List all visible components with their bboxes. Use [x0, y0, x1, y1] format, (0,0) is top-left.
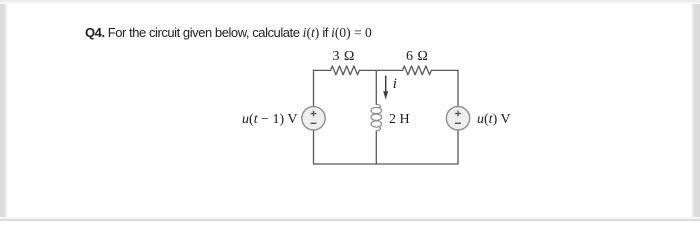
wire left branch lower [313, 130, 315, 164]
page top edge shading [0, 0, 700, 4]
svg-text:u(t) V: u(t) V [477, 112, 511, 127]
wire middle branch upper [375, 70, 377, 104]
svg-text:2 H: 2 H [389, 112, 410, 127]
inductor L1 2H coil [371, 104, 382, 131]
wire left branch upper [313, 70, 315, 106]
page left edge shading [0, 0, 8, 221]
wire top-left segment [314, 69, 331, 71]
svg-text:3 Ω: 3 Ω [333, 49, 355, 64]
wire top-right segment [431, 69, 458, 71]
svg-text:i: i [393, 76, 397, 92]
wire middle branch lower [375, 131, 377, 164]
resistor R1 3ohm [331, 66, 360, 75]
wire right branch upper [457, 70, 459, 106]
svg-text:u(t − 1) V: u(t − 1) V [242, 112, 297, 127]
wire top-middle segment [359, 69, 402, 71]
title text [85, 25, 372, 41]
voltage source V1 left u(t-1) [302, 107, 325, 130]
wire bottom segment [314, 163, 459, 165]
page right edge shading [691, 0, 700, 221]
current arrow i [383, 76, 388, 100]
resistor R2 6ohm [403, 66, 432, 75]
svg-text:6 Ω: 6 Ω [406, 49, 428, 64]
page bottom edge shading [0, 217, 700, 221]
voltage source V2 right u(t) [446, 107, 469, 130]
wire right branch lower [457, 130, 459, 164]
